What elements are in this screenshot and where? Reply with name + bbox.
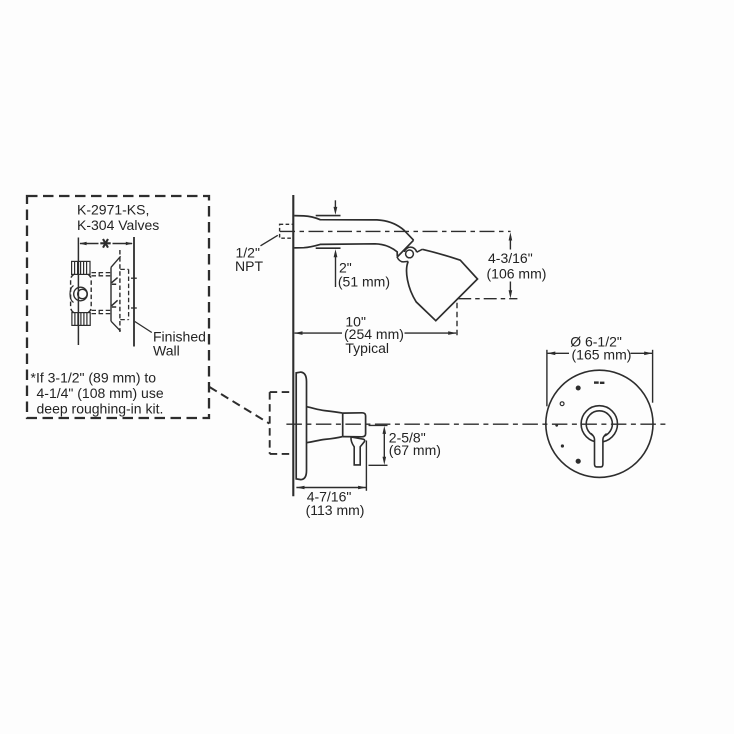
label K-2971-KS / K-304 Valves bbox=[77, 202, 159, 234]
svg-text:K-304 Valves: K-304 Valves bbox=[77, 217, 159, 233]
dashed extension below head bbox=[456, 303, 458, 338]
tick at lever bottom bbox=[369, 464, 388, 466]
extension line right of handle bbox=[365, 441, 367, 491]
svg-text:Typical: Typical bbox=[345, 340, 389, 356]
valve cartridge circles bbox=[70, 286, 87, 303]
rough-in valve dashed outline bbox=[270, 392, 293, 454]
svg-text:(113 mm): (113 mm) bbox=[306, 502, 365, 518]
tick at centerline for 2-5/8 bbox=[369, 424, 388, 426]
svg-text:deep roughing-in kit.: deep roughing-in kit. bbox=[37, 401, 164, 417]
dimension 4-7/16" (113 mm) bbox=[296, 486, 366, 518]
dashed leader from note box to rough-in bbox=[210, 387, 270, 424]
shower arm outline bbox=[294, 216, 413, 257]
trim plate circle (front view) bbox=[546, 370, 653, 477]
finished wall line (inset view) bbox=[133, 237, 135, 347]
trim escutcheon (side view) bbox=[296, 372, 306, 480]
plate screw dot lower bbox=[576, 459, 581, 464]
handle lever front view bbox=[591, 433, 607, 467]
handle lever bbox=[351, 437, 365, 465]
valve inlet pipe line bbox=[77, 238, 79, 346]
main wall line bbox=[292, 195, 294, 496]
plate slot marks top bbox=[594, 381, 604, 384]
dimension Ø 6-1/2" (165 mm) bbox=[547, 334, 653, 407]
handle ring front view bbox=[581, 406, 617, 442]
note text bbox=[31, 370, 164, 417]
svg-text:Wall: Wall bbox=[153, 343, 180, 359]
valve trim neck bbox=[307, 407, 343, 443]
dimension 10" (254 mm) Typical bbox=[294, 314, 456, 356]
plaster guard dashed ring bbox=[120, 269, 128, 319]
label Finished Wall bbox=[153, 329, 206, 359]
dashed note box bbox=[27, 196, 209, 418]
leader to Finished Wall bbox=[135, 322, 152, 333]
svg-text:(165 mm): (165 mm) bbox=[572, 347, 632, 363]
svg-text:K-2971-KS,: K-2971-KS, bbox=[77, 202, 149, 218]
svg-text:4-1/4" (108 mm) use: 4-1/4" (108 mm) use bbox=[37, 385, 164, 401]
valve top threaded nipple bbox=[72, 261, 90, 274]
dimension 2-5/8" (67 mm) bbox=[383, 426, 441, 465]
svg-text:(67 mm): (67 mm) bbox=[389, 442, 441, 458]
head exit centerline bbox=[458, 298, 517, 300]
shower head bell bbox=[407, 249, 478, 320]
svg-text:(106 mm): (106 mm) bbox=[487, 266, 547, 282]
svg-text:NPT: NPT bbox=[235, 258, 263, 274]
dot on centerline bbox=[555, 424, 558, 427]
bottom of arm reference tick bbox=[316, 247, 341, 249]
dimension 4-3/16" (106 mm) bbox=[487, 232, 547, 298]
guard screw bosses bbox=[112, 278, 118, 307]
wall line tick marks bbox=[131, 278, 137, 308]
svg-text:4-3/16": 4-3/16" bbox=[488, 250, 533, 266]
shower arm centerline bbox=[280, 230, 511, 232]
small dot lower bbox=[561, 444, 564, 447]
top of arm reference tick bbox=[316, 215, 341, 217]
dashed supply stubs to guard bbox=[92, 273, 111, 314]
1/2 NPT dashed fitting bbox=[280, 224, 294, 238]
stub joint ticks bbox=[98, 272, 100, 314]
star symbol bbox=[100, 239, 110, 248]
trim centerline bbox=[286, 423, 667, 425]
shower head ball joint bbox=[397, 247, 422, 262]
label 1/2" NPT bbox=[235, 245, 263, 274]
valve body outline bbox=[71, 274, 92, 312]
valve bottom threaded nipple bbox=[72, 313, 90, 326]
dimension 2" (51 mm) bbox=[334, 249, 390, 289]
leader to NPT fitting bbox=[261, 235, 278, 246]
svg-text:(51 mm): (51 mm) bbox=[338, 273, 390, 289]
plate screw dot upper left bbox=[576, 386, 581, 391]
svg-text:*If 3-1/2" (89 mm) to: *If 3-1/2" (89 mm) to bbox=[31, 370, 157, 386]
handle hub bbox=[343, 413, 366, 437]
arrow down to arm top bbox=[334, 200, 338, 215]
dimension * (rough-in depth) bbox=[79, 242, 133, 245]
small open hole bbox=[560, 402, 564, 406]
plaster guard plate bbox=[111, 250, 121, 332]
